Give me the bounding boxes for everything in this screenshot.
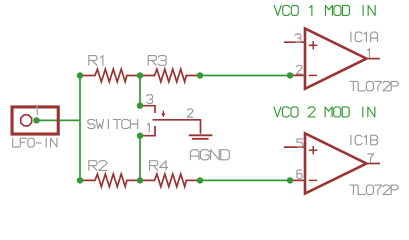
op-amp IC1B — [284, 133, 380, 193]
junction at IC1A pin 2 — [287, 72, 293, 78]
label LFO-IN — [13, 138, 57, 147]
pin number 3 of IC1A — [295, 34, 301, 43]
pin number 3 of switch — [147, 95, 153, 104]
wire LFO-IN to vertical bus — [37, 119, 81, 121]
resistor R1 — [80, 69, 140, 82]
junction bottom-right — [197, 177, 203, 183]
ground symbol AGND — [189, 135, 213, 139]
wire top rail to IC1A pin 2 — [200, 75, 290, 77]
junction switch pin 1 — [137, 133, 143, 139]
label IC1A — [351, 32, 378, 42]
wire to switch pin 3 — [139, 76, 141, 106]
junction switch pin 3 — [137, 103, 143, 109]
pin number 7 of IC1B — [368, 154, 374, 163]
resistor R2 — [80, 174, 140, 187]
pin number 2 of IC1A — [296, 65, 302, 74]
label R4 — [150, 161, 168, 171]
connector X1 LFO-IN — [12, 107, 58, 134]
junction bottom-left — [77, 177, 83, 183]
wire from switch pin 1 — [139, 136, 141, 181]
label R2 — [89, 161, 107, 171]
pin number 1 of IC1A — [368, 49, 370, 58]
pin number 2 of switch — [187, 109, 193, 117]
pin number 1 of LFO-IN — [36, 107, 38, 115]
label SWITCH — [88, 119, 138, 128]
junction bottom-middle — [137, 177, 143, 183]
resistor R4 — [140, 174, 201, 187]
pin number 6 of IC1B — [297, 170, 302, 179]
label TL072P of IC1B — [350, 185, 398, 194]
resistor R3 — [140, 69, 201, 82]
junction at IC1B pin 6 — [287, 177, 293, 183]
op-amp IC1A — [284, 29, 380, 89]
junction top-middle — [137, 72, 143, 78]
pin number 5 of IC1B — [297, 139, 303, 148]
wire bottom rail to IC1B pin 6 — [200, 179, 290, 181]
junction top-left — [77, 72, 83, 78]
label R3 — [148, 56, 166, 66]
net label VCO 2 MOD IN — [274, 107, 375, 117]
switch S1 — [140, 106, 201, 136]
label AGND — [190, 150, 229, 160]
net label VCO 1 MOD IN — [274, 5, 375, 15]
label R1 — [89, 56, 103, 66]
junction top-right — [197, 72, 203, 78]
wire vertical bus — [79, 76, 81, 181]
junction at LFO-IN pin — [33, 117, 39, 123]
label TL072P of IC1A — [350, 81, 398, 90]
pin number 1 of switch — [148, 123, 150, 132]
label IC1B — [351, 135, 378, 145]
